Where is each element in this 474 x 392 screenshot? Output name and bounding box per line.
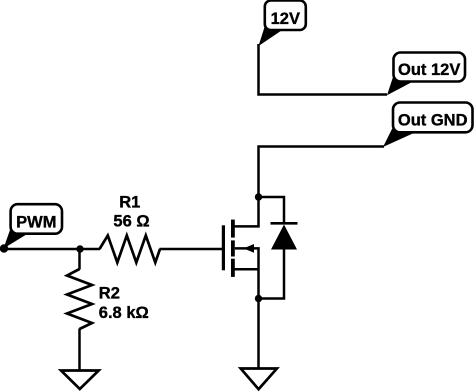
wire Out GND to drain node — [259, 147, 385, 198]
wire R2 top lead — [78, 249, 81, 270]
svg-text:R1: R1 — [119, 194, 140, 212]
svg-text:12V: 12V — [271, 10, 300, 28]
wire drain node to MOSFET drain — [233, 197, 259, 226]
net flag PWM box — [11, 204, 62, 234]
wire 12V supply to Out 12V — [259, 44, 388, 95]
svg-text:Out GND: Out GND — [398, 112, 468, 130]
wire MOSFET source — [233, 268, 259, 271]
ground under R2 — [61, 371, 99, 390]
net flag Out GND tail — [383, 125, 416, 147]
wire body to source — [235, 248, 259, 298]
wire diode cathode branch — [259, 197, 285, 223]
junction node drain — [255, 193, 262, 200]
net flag 12V tail — [259, 24, 284, 46]
svg-text:PWM: PWM — [16, 214, 56, 232]
wire source node to ground — [257, 299, 260, 370]
terminal PWM — [0, 244, 8, 252]
net flag Out 12V box — [394, 53, 466, 82]
transistor Q1 channel top segment — [231, 220, 235, 238]
diode D1 cathode bar — [271, 222, 298, 225]
ground under source — [241, 369, 277, 390]
transistor Q1 channel bottom segment — [231, 259, 235, 277]
net flag PWM tail — [4, 227, 29, 249]
net flag Out GND box — [393, 103, 473, 133]
net flag 12V box — [265, 1, 306, 31]
svg-text:56 Ω: 56 Ω — [113, 213, 149, 231]
resistor R2 — [67, 269, 92, 329]
svg-text:Out 12V: Out 12V — [398, 61, 460, 79]
svg-text:6.8 kΩ: 6.8 kΩ — [99, 304, 149, 322]
transistor Q1 channel middle segment — [231, 240, 235, 256]
wire PWM to R1 — [4, 248, 100, 251]
diode D1 triangle — [271, 225, 297, 250]
net flag Out 12V tail — [387, 74, 414, 95]
svg-text:R2: R2 — [99, 284, 120, 302]
transistor Q1 body arrow — [244, 244, 255, 253]
wire R2 bottom lead to ground — [78, 329, 81, 371]
junction node source — [255, 295, 262, 302]
wire R1 to gate — [160, 248, 224, 251]
resistor R1 — [100, 236, 161, 263]
wire diode anode branch — [259, 249, 285, 299]
transistor Q1 n-channel MOSFET gate bar — [222, 225, 225, 270]
junction node gate divider — [76, 245, 83, 252]
